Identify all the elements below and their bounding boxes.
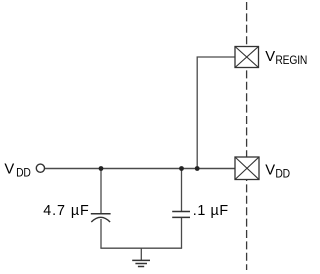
svg-text:DD: DD <box>16 167 31 180</box>
svg-text:V: V <box>265 49 275 65</box>
svg-text:.1 µF: .1 µF <box>193 203 229 219</box>
wire: C2 upper lead <box>181 169 183 212</box>
svg-text:REGIN: REGIN <box>275 54 307 67</box>
capacitor C1 4.7uF (polarized) <box>91 214 111 222</box>
label VREGIN (pin) <box>265 49 307 67</box>
node: junction dot at C1 <box>99 166 104 171</box>
wire: C2 lower lead <box>181 217 183 248</box>
pin VREGIN (crossed box) <box>235 47 259 68</box>
terminal: VDD input circle <box>36 164 44 172</box>
label VDD (left terminal) <box>4 161 30 179</box>
svg-text:V: V <box>4 161 14 177</box>
pin VDD (crossed box) <box>235 157 259 180</box>
value label 0.1 uF <box>193 203 229 219</box>
wire: bottom ground rail <box>100 247 182 249</box>
svg-text:V: V <box>265 162 275 178</box>
wire: to VREGIN pin <box>197 57 235 169</box>
wire: C1 lower lead <box>100 219 102 248</box>
label VDD (pin) <box>265 162 290 180</box>
dashed device boundary line <box>246 2 248 270</box>
value label 4.7 uF <box>43 203 90 219</box>
wire: main VDD rail <box>45 168 235 170</box>
svg-text:4.7 µF: 4.7 µF <box>43 203 90 219</box>
node: junction dot at VREGIN branch <box>195 166 200 171</box>
wire: C1 upper lead <box>100 169 102 214</box>
ground <box>132 248 150 266</box>
node: junction dot at C2 <box>179 166 184 171</box>
capacitor C2 0.1uF <box>172 212 190 218</box>
svg-text:DD: DD <box>275 168 290 181</box>
